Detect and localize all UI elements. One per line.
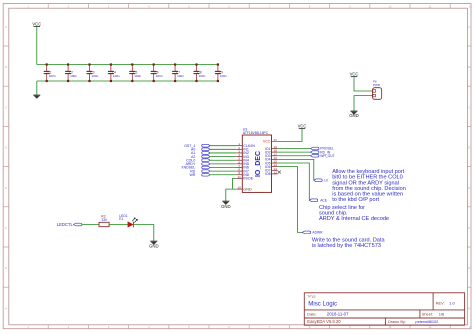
- node WR_OUT: [278, 154, 335, 158]
- svg-text:100n: 100n: [92, 74, 99, 78]
- pin 15 IO5 (U3): [265, 160, 278, 166]
- capacitor C1 100n: [44, 63, 56, 82]
- no-connect pin 13/12: [278, 171, 281, 174]
- svg-text:E1: E1: [119, 217, 123, 221]
- svg-text:Date:: Date:: [307, 311, 316, 316]
- ground (U3): [221, 201, 231, 209]
- svg-text:4: 4: [148, 4, 150, 8]
- pin 12 IO8 (U3): [265, 170, 278, 176]
- svg-text:GND: GND: [349, 113, 359, 118]
- resistor R2 330: [99, 214, 109, 226]
- svg-text:10: 10: [238, 186, 242, 190]
- svg-text:G: G: [468, 266, 470, 270]
- node A1: [191, 151, 236, 155]
- svg-text:G: G: [5, 266, 7, 270]
- node A2: [191, 155, 236, 159]
- pin 3 IN2 (U3): [236, 149, 249, 155]
- svg-text:C: C: [468, 105, 470, 109]
- svg-text:1/6: 1/6: [439, 311, 445, 316]
- pin 6 IN5 (U3): [236, 160, 249, 166]
- svg-text:ACE: ACE: [320, 199, 328, 203]
- capacitor C6 100n: [151, 63, 163, 82]
- wire bottom rail to ground: [36, 81, 38, 95]
- wire LEDCTL to R2: [82, 224, 99, 226]
- svg-text:D: D: [5, 146, 7, 150]
- wire VCC to top rail: [36, 27, 38, 65]
- svg-text:H: H: [5, 306, 7, 310]
- pin 8 IN7 (U3): [236, 168, 249, 174]
- pin 18 IO2 (U3): [265, 149, 278, 155]
- capacitor C8 100n: [194, 63, 206, 82]
- svg-text:B: B: [468, 65, 470, 69]
- pin 9 IN8 (U3): [236, 171, 249, 177]
- pin 11 IN/OE (U3): [236, 175, 253, 181]
- svg-text:Sheet:: Sheet:: [422, 311, 433, 316]
- node ARDY: [186, 162, 237, 166]
- svg-text:11: 11: [429, 4, 432, 8]
- pin 13 IO7 (U3): [265, 167, 278, 173]
- svg-text:100n: 100n: [134, 74, 141, 78]
- svg-text:20: 20: [274, 138, 278, 142]
- node XNDSEL: [181, 166, 236, 170]
- svg-text:7: 7: [269, 4, 271, 8]
- ground (LED1): [149, 241, 159, 248]
- wire R2 to LED1: [109, 224, 128, 226]
- svg-text:F: F: [5, 226, 7, 230]
- svg-text:WR_OUT: WR_OUT: [320, 154, 334, 158]
- svg-text:VCC: VCC: [263, 140, 271, 144]
- capacitor C2 100n: [65, 63, 77, 82]
- svg-text:6: 6: [228, 4, 230, 8]
- svg-text:L0: L0: [324, 179, 328, 183]
- svg-text:5: 5: [188, 4, 190, 8]
- svg-text:2018-11-07: 2018-11-07: [327, 311, 349, 316]
- pin 10 GND (U3): [236, 186, 252, 192]
- note sound card write: [312, 238, 386, 250]
- svg-text:1: 1: [27, 4, 29, 8]
- connector P6 PWR: [373, 79, 382, 99]
- svg-text:A: A: [5, 25, 7, 29]
- node PROSEL: [278, 147, 334, 151]
- wire pin11 to ground net: [233, 178, 237, 189]
- node ADWR: [278, 167, 323, 235]
- power flag VCC (cap bank): [32, 21, 41, 26]
- node LEDCTL: [57, 222, 82, 227]
- svg-text:to the kbd O/P port: to the kbd O/P port: [332, 197, 379, 203]
- LED LED1 E1: [119, 214, 137, 227]
- pin 19 IO1 (U3): [265, 145, 278, 151]
- node A0: [191, 148, 236, 152]
- wire LED1 to ground: [134, 225, 154, 241]
- node L0: [278, 159, 328, 182]
- note keyboard input port: [332, 169, 406, 203]
- svg-text:IO8: IO8: [265, 172, 271, 176]
- svg-text:LEDCTL: LEDCTL: [57, 222, 74, 227]
- svg-text:E: E: [468, 186, 470, 190]
- wire pin2 to ground: [354, 96, 373, 111]
- svg-text:EasyEDA V5.9.20: EasyEDA V5.9.20: [307, 319, 341, 324]
- svg-text:C: C: [5, 105, 7, 109]
- power flag VCC (U3): [298, 123, 307, 128]
- svg-text:B: B: [5, 65, 7, 69]
- svg-text:2: 2: [68, 4, 70, 8]
- svg-text:1.0: 1.0: [449, 301, 455, 306]
- capacitor C3 100n: [87, 63, 99, 82]
- svg-text:D: D: [468, 146, 470, 150]
- svg-text:GND: GND: [243, 187, 252, 191]
- capacitor C5 100n: [129, 63, 141, 82]
- svg-text:ARDY & Internal CE decode: ARDY & Internal CE decode: [319, 216, 389, 222]
- ground (P6): [349, 111, 359, 118]
- svg-text:WR: WR: [189, 173, 195, 177]
- wire pin10 to ground: [226, 189, 236, 201]
- node RD: [190, 169, 236, 173]
- svg-text:F: F: [468, 226, 470, 230]
- svg-text:A: A: [468, 25, 470, 29]
- svg-text:VCC: VCC: [32, 21, 41, 26]
- pin 14 IO6 (U3): [265, 163, 278, 169]
- svg-text:PWR: PWR: [373, 83, 381, 87]
- svg-text:GND: GND: [149, 243, 159, 248]
- svg-text:100n: 100n: [177, 74, 184, 78]
- pin 7 IN6 (U3): [236, 164, 249, 170]
- svg-text:is latched by the 74HCT573: is latched by the 74HCT573: [312, 243, 381, 249]
- svg-text:100n: 100n: [199, 74, 206, 78]
- svg-text:IO_DEC: IO_DEC: [255, 151, 262, 177]
- pin 4 IN3 (U3): [236, 153, 249, 159]
- svg-text:12: 12: [274, 170, 278, 174]
- node GST_4: [184, 144, 236, 148]
- svg-text:9: 9: [349, 4, 351, 8]
- wire pin20 to VCC: [278, 129, 302, 142]
- svg-text:TITLE:: TITLE:: [307, 294, 316, 298]
- power flag VCC (P6): [350, 71, 359, 76]
- svg-text:VCC: VCC: [350, 71, 359, 76]
- node RD_IN: [278, 150, 331, 154]
- pin 17 IO3 (U3): [265, 152, 278, 158]
- svg-text:IN/OE: IN/OE: [243, 177, 253, 181]
- wire VCC to pin1: [354, 77, 373, 91]
- wire bottom rail: [37, 80, 218, 82]
- svg-text:100n: 100n: [70, 74, 77, 78]
- pin 16 IO4 (U3): [265, 156, 278, 162]
- title block: [304, 293, 464, 325]
- svg-text:100n: 100n: [113, 74, 120, 78]
- node WR: [189, 173, 236, 177]
- svg-text:3: 3: [108, 4, 110, 8]
- capacitor C9 100n: [215, 63, 227, 82]
- svg-text:Drawn By:: Drawn By:: [388, 319, 406, 324]
- op-amp U3 ATF16V8B-15PC (IO_DEC): [242, 128, 271, 193]
- ground (cap bank): [33, 95, 40, 99]
- svg-text:E: E: [5, 186, 7, 190]
- pin 1 CLK/IN (U3): [236, 142, 255, 148]
- svg-text:REV:: REV:: [436, 301, 445, 306]
- svg-text:VCC: VCC: [298, 123, 307, 128]
- pin 5 IN4 (U3): [236, 157, 249, 163]
- svg-text:8: 8: [309, 4, 311, 8]
- svg-text:Misc Logic: Misc Logic: [308, 300, 337, 307]
- node ACE: [278, 163, 328, 202]
- svg-text:peterwill8102: peterwill8102: [415, 319, 438, 324]
- svg-text:H: H: [468, 306, 470, 310]
- svg-text:100n: 100n: [156, 74, 163, 78]
- pin 20 VCC (U3): [263, 138, 278, 144]
- pin 2 IN1 (U3): [236, 146, 249, 152]
- svg-text:10: 10: [389, 4, 392, 8]
- svg-text:330: 330: [102, 218, 108, 222]
- capacitor C7 100n: [172, 63, 184, 82]
- svg-text:ADWR: ADWR: [312, 231, 323, 235]
- note chip select: [319, 205, 389, 222]
- svg-text:11: 11: [238, 175, 241, 179]
- wire top rail: [37, 64, 218, 66]
- svg-text:100n: 100n: [49, 74, 56, 78]
- capacitor C4 100n: [108, 63, 120, 82]
- node COL0: [186, 158, 236, 162]
- svg-text:GND: GND: [221, 204, 231, 209]
- svg-text:100n: 100n: [220, 74, 227, 78]
